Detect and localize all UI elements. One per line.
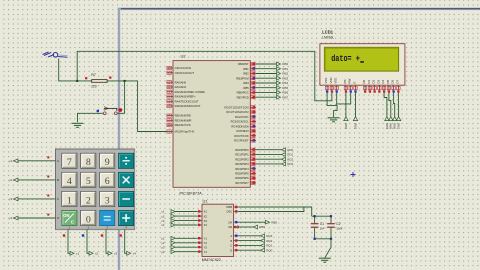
svg-text:x1: x1	[161, 210, 165, 214]
svg-text:C: C	[57, 197, 59, 201]
svg-text:1: 1	[67, 195, 72, 206]
svg-text:A: A	[230, 234, 232, 238]
svg-text:LCD1: LCD1	[322, 30, 333, 35]
U1 OE wire terminal RB0	[239, 226, 254, 228]
svg-text:Y2: Y2	[204, 241, 208, 245]
svg-text:D: D	[230, 248, 232, 252]
svg-text:RC1/T1OSI/CCP2: RC1/T1OSI/CCP2	[226, 110, 249, 114]
ground under capacitors	[319, 257, 331, 259]
keypad column wires x1-x4	[63, 230, 136, 256]
svg-text:RC7/RX/DT: RC7/RX/DT	[234, 139, 249, 143]
svg-text:PIC16F877A: PIC16F877A	[180, 191, 203, 196]
svg-text:RB7/PGD: RB7/PGD	[237, 95, 249, 99]
wire caps to ground diagonal	[325, 239, 331, 258]
keypad calculator	[56, 149, 135, 230]
svg-text:RE1/AN6/WR: RE1/AN6/WR	[175, 118, 192, 122]
svg-text:RB3: RB3	[282, 76, 288, 80]
junction R7-LCD power rail	[76, 80, 78, 82]
svg-text:RB6: RB6	[282, 91, 288, 95]
svg-text:RB7: RB7	[397, 123, 401, 129]
svg-text:RD6/PSP6: RD6/PSP6	[235, 176, 249, 180]
svg-text:RD2: RD2	[266, 239, 272, 243]
keypad row terminals y1-y4	[9, 156, 55, 220]
svg-text:RD2: RD2	[287, 157, 293, 161]
keypad equals button	[100, 210, 115, 225]
red pin marker R7 left	[85, 77, 87, 79]
svg-text:dato= +: dato= +	[331, 53, 360, 64]
svg-text:Y4: Y4	[204, 250, 208, 254]
svg-text:Y3: Y3	[204, 245, 208, 249]
svg-text:RB2: RB2	[282, 72, 288, 76]
svg-text:6: 6	[105, 176, 110, 187]
ground under LCD	[328, 117, 340, 119]
svg-text:220: 220	[91, 85, 97, 89]
U1 left pins Y1-Y4	[197, 237, 208, 254]
U1 output wires A-D to RD3-RD0	[239, 234, 273, 253]
svg-text:B: B	[57, 178, 59, 182]
svg-text:VDD: VDD	[329, 76, 333, 83]
svg-text:X4: X4	[204, 223, 208, 227]
marker cross	[351, 172, 356, 177]
svg-text:0: 0	[86, 214, 91, 225]
LCD green screen	[324, 47, 398, 71]
svg-text:x4: x4	[161, 223, 165, 227]
svg-text:RD3: RD3	[266, 234, 272, 238]
button junction red dot	[118, 108, 122, 112]
U2 right pins port B	[236, 62, 256, 99]
svg-text:RB6: RB6	[393, 123, 397, 129]
svg-text:X1: X1	[204, 210, 208, 214]
svg-text:D0: D0	[362, 79, 366, 83]
keypad button 0	[81, 210, 96, 225]
svg-text:RB2: RB2	[243, 72, 249, 76]
svg-text:RD0: RD0	[266, 248, 272, 252]
svg-text:x2: x2	[95, 252, 99, 256]
svg-text:LM016L: LM016L	[322, 35, 334, 39]
svg-text:RC6/TX/CK: RC6/TX/CK	[234, 134, 249, 138]
svg-text:y1: y1	[9, 159, 13, 163]
svg-text:5: 5	[86, 176, 91, 187]
svg-text:RC0/T1OSO/T1CKI: RC0/T1OSO/T1CKI	[225, 105, 249, 109]
svg-text:B: B	[230, 239, 232, 243]
capacitor junction squares	[314, 215, 316, 217]
svg-text:RD3/PSP3: RD3/PSP3	[235, 162, 249, 166]
svg-text:D7: D7	[395, 79, 399, 83]
svg-text:RB3: RB3	[353, 123, 357, 129]
svg-text:y2: y2	[161, 241, 165, 245]
push button reset	[78, 113, 104, 122]
svg-text:RA1/AN1: RA1/AN1	[175, 85, 187, 89]
wire R7 to MCLR	[107, 81, 167, 132]
U1 input terminals x1-x4	[161, 210, 196, 228]
svg-text:U1: U1	[203, 198, 209, 203]
svg-text:A: A	[57, 159, 59, 163]
svg-text:x1: x1	[76, 252, 80, 256]
capacitor C2	[330, 216, 332, 223]
svg-text:x3: x3	[114, 252, 118, 256]
svg-text:RS: RS	[343, 79, 347, 83]
svg-text:3: 3	[105, 195, 110, 206]
svg-text:4: 4	[67, 176, 72, 187]
svg-text:8: 8	[86, 157, 91, 168]
power terminal +5V label	[43, 52, 55, 57]
svg-text:y4: y4	[161, 250, 165, 254]
svg-text:DA: DA	[228, 220, 232, 224]
svg-text:C: C	[230, 244, 232, 248]
svg-text:RB0/INT: RB0/INT	[238, 62, 249, 66]
LCD RW ground wire	[337, 93, 351, 104]
svg-text:RD2/PSP2: RD2/PSP2	[235, 157, 249, 161]
svg-text:RC3/SCK/SCL: RC3/SCK/SCL	[231, 120, 250, 124]
svg-text:RB0: RB0	[271, 220, 277, 224]
svg-text:D4: D4	[381, 79, 385, 83]
svg-text:RB5: RB5	[243, 86, 249, 90]
svg-text:RD0: RD0	[287, 148, 293, 152]
svg-text:RD3: RD3	[287, 162, 293, 166]
svg-text:y1: y1	[161, 237, 165, 241]
svg-text:RB5: RB5	[389, 123, 393, 129]
svg-text:y3: y3	[9, 197, 13, 201]
svg-text:D1: D1	[367, 79, 371, 83]
wire power bus horizontal top	[117, 7, 480, 10]
keypad operator buttons teal	[119, 153, 134, 225]
LCD display LM016L body	[320, 44, 405, 85]
resistor R7	[92, 80, 107, 83]
svg-text:RB4: RB4	[385, 123, 389, 129]
svg-text:C1: C1	[320, 222, 324, 226]
svg-text:RB1: RB1	[243, 67, 249, 71]
svg-text:x3: x3	[161, 219, 165, 223]
svg-text:RB0: RB0	[282, 62, 288, 66]
svg-text:RB7: RB7	[282, 95, 288, 99]
U2 port D wires to terminals RD0-RD3	[256, 148, 294, 166]
svg-text:D2: D2	[372, 79, 376, 83]
svg-text:y2: y2	[9, 178, 13, 182]
svg-text:2: 2	[86, 195, 91, 206]
svg-text:RD1: RD1	[266, 244, 272, 248]
wire power to R7	[59, 59, 92, 81]
svg-text:RA0/AN0: RA0/AN0	[175, 80, 187, 84]
svg-text:Y1: Y1	[204, 237, 208, 241]
svg-text:E: E	[353, 82, 357, 84]
svg-text:RC5/SDO: RC5/SDO	[236, 129, 248, 133]
svg-text:D: D	[57, 216, 59, 220]
svg-text:VSS: VSS	[324, 78, 328, 84]
svg-text:MM74C922: MM74C922	[202, 258, 221, 262]
svg-text:1nF: 1nF	[320, 227, 325, 231]
svg-text:x4: x4	[133, 252, 137, 256]
svg-text:RD7/PSP7: RD7/PSP7	[235, 181, 249, 185]
svg-text:KBM: KBM	[226, 205, 233, 209]
svg-text:ON: ON	[63, 213, 69, 218]
svg-text:7: 7	[67, 157, 72, 168]
wire LCD power rail	[77, 51, 332, 101]
LCD pin stubs and state squares	[325, 85, 400, 93]
svg-text:RD0/PSP0: RD0/PSP0	[235, 148, 249, 152]
keypad digit buttons	[62, 153, 115, 206]
svg-text:RE0/AN5/RD: RE0/AN5/RD	[175, 114, 191, 118]
svg-text:OSC: OSC	[226, 210, 232, 214]
svg-text:RD4/PSP4: RD4/PSP4	[235, 167, 249, 171]
svg-text:RD1/PSP1: RD1/PSP1	[235, 153, 249, 157]
svg-text:RC4/SDI/SDA: RC4/SDI/SDA	[231, 124, 248, 128]
wire power bus vertical	[118, 7, 121, 270]
LCD pin labels	[324, 76, 399, 83]
svg-text:OSC1/CLKIN: OSC1/CLKIN	[175, 66, 191, 70]
svg-text:RC2/CCP1: RC2/CCP1	[235, 115, 249, 119]
svg-text:RA2/AN2/VREF-/CVREF: RA2/AN2/VREF-/CVREF	[175, 90, 206, 94]
svg-text:10uF: 10uF	[336, 227, 343, 231]
svg-text:RE2/AN7/CS: RE2/AN7/CS	[175, 123, 191, 127]
svg-text:RB2: RB2	[344, 123, 348, 129]
svg-text:X2: X2	[204, 214, 208, 218]
U2 port B wires to terminals RB0-RB7	[256, 62, 288, 99]
svg-text:OSC2/CLKOUT: OSC2/CLKOUT	[175, 71, 195, 75]
red pin marker R7 right	[109, 77, 111, 79]
svg-text:x2: x2	[161, 214, 165, 218]
svg-text:9: 9	[105, 157, 110, 168]
LCD E terminal	[355, 93, 357, 117]
svg-text:RA3/AN3/VREF+: RA3/AN3/VREF+	[175, 95, 197, 99]
U2 right pins port D	[235, 148, 256, 185]
svg-text:RW: RW	[348, 78, 352, 83]
junction button	[124, 80, 126, 82]
svg-text:C2: C2	[336, 222, 340, 226]
svg-text:MCLR/Vpp/THV: MCLR/Vpp/THV	[175, 130, 195, 134]
svg-text:U2: U2	[181, 54, 187, 59]
svg-text:X3: X3	[204, 219, 208, 223]
svg-text:R7: R7	[91, 73, 96, 77]
svg-text:RD1: RD1	[287, 153, 293, 157]
svg-text:RA4/T0CKI/C1OUT: RA4/T0CKI/C1OUT	[175, 99, 199, 103]
svg-text:RB4: RB4	[282, 81, 288, 85]
svg-text:y3: y3	[161, 245, 165, 249]
svg-text:D5: D5	[386, 79, 390, 83]
button wire to MCLR net	[117, 81, 125, 113]
LCD data wires D4-D7 to terminals	[384, 93, 401, 130]
svg-text:RA5/AN4/SS/C2OUT: RA5/AN4/SS/C2OUT	[175, 104, 201, 108]
button state square blue	[97, 110, 99, 112]
keypad ON/C button	[62, 210, 77, 225]
U1 left pins X1-X4	[197, 210, 208, 228]
svg-text:RB0: RB0	[259, 225, 265, 229]
svg-text:RB6/PGC: RB6/PGC	[237, 91, 249, 95]
U2 right pins port C	[225, 105, 256, 142]
svg-text:RB5: RB5	[282, 86, 288, 90]
svg-text:y4: y4	[9, 216, 13, 220]
U1 input terminals y1-y4	[161, 236, 196, 254]
capacitor rails	[312, 215, 332, 217]
svg-text:RB3/PGM: RB3/PGM	[236, 76, 249, 80]
LCD RS terminal	[345, 93, 347, 117]
LCD VSS VEE ground wires	[327, 93, 337, 106]
svg-text:RD5/PSP5: RD5/PSP5	[235, 172, 249, 176]
U2 left pins	[167, 66, 206, 134]
svg-text:RB1: RB1	[282, 67, 288, 71]
U1 KBM OSC wires to capacitors	[239, 207, 312, 216]
svg-text:D3: D3	[376, 79, 380, 83]
capacitor C1	[314, 216, 316, 223]
svg-text:VEE: VEE	[334, 78, 338, 84]
U1 right pins	[226, 205, 239, 252]
U1 DA wire terminal RB0	[239, 221, 266, 223]
svg-text:OE: OE	[228, 225, 232, 229]
svg-text:RB4: RB4	[243, 81, 249, 85]
svg-text:D6: D6	[391, 79, 395, 83]
